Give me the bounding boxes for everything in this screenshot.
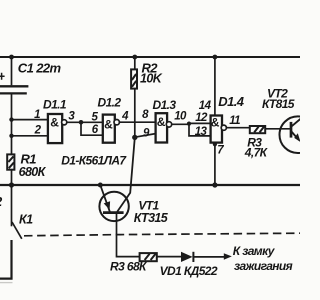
- svg-text:зажигания: зажигания: [234, 259, 293, 273]
- svg-text:&: &: [50, 116, 59, 130]
- svg-text:D1.3: D1.3: [153, 98, 177, 112]
- svg-text:11: 11: [229, 115, 240, 127]
- svg-text:10: 10: [174, 111, 187, 123]
- svg-text:КТ815: КТ815: [262, 97, 295, 111]
- svg-text:12: 12: [195, 112, 208, 124]
- svg-text:&: &: [211, 116, 220, 130]
- svg-text:КТ315: КТ315: [134, 211, 169, 225]
- svg-text:R3 68К: R3 68К: [110, 259, 148, 273]
- svg-text:К замку: К замку: [233, 244, 276, 258]
- svg-text:&: &: [104, 117, 113, 131]
- svg-text:4: 4: [121, 111, 129, 123]
- svg-text:4,7К: 4,7К: [244, 146, 269, 160]
- svg-text:2: 2: [34, 125, 42, 137]
- svg-text:C1 22m: C1 22m: [18, 61, 62, 76]
- svg-text:1: 1: [34, 109, 40, 121]
- svg-text:&: &: [157, 115, 166, 129]
- svg-text:D1.1: D1.1: [43, 98, 67, 112]
- svg-text:D1-К561ЛА7: D1-К561ЛА7: [61, 154, 127, 168]
- svg-text:VD1 КД522: VD1 КД522: [160, 264, 218, 278]
- svg-text:14: 14: [199, 100, 212, 112]
- svg-text:10K: 10K: [140, 71, 163, 85]
- svg-text:680К: 680К: [19, 165, 47, 179]
- svg-text:D1.4: D1.4: [218, 94, 244, 109]
- svg-text:К1: К1: [19, 213, 33, 227]
- svg-text:13: 13: [195, 126, 208, 138]
- svg-text:D1.2: D1.2: [98, 96, 122, 110]
